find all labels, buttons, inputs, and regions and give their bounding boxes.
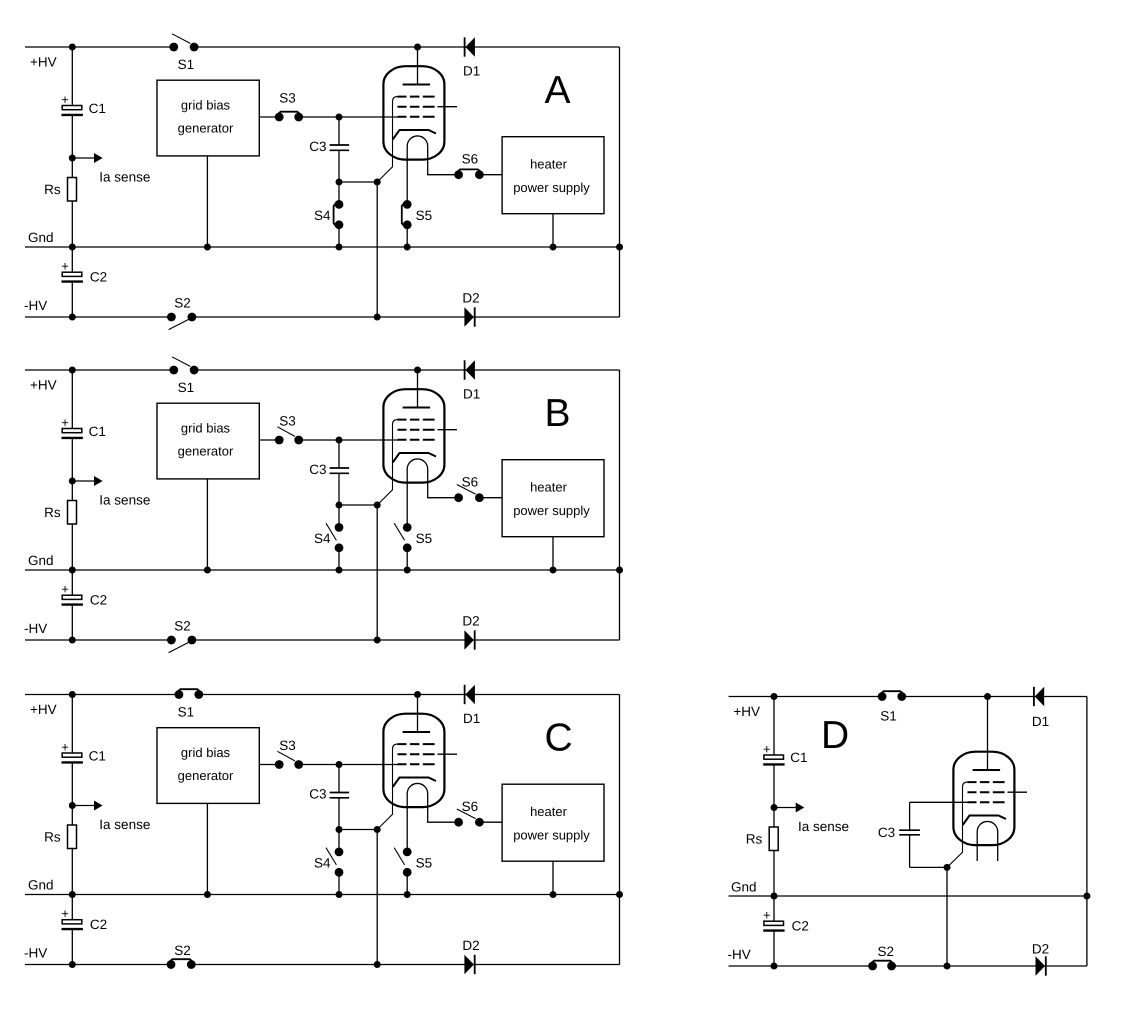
A: wire S4 to Gnd xyxy=(338,225,340,247)
D: switch S1 xyxy=(878,692,887,701)
B: grid bias generator box xyxy=(157,403,259,479)
C: switch S5 xyxy=(403,848,412,857)
B: junction C3/S4 node xyxy=(336,502,343,509)
A: tube cathode xyxy=(393,130,436,140)
C: resistor Rs xyxy=(68,825,77,849)
C: tube screen grid stub xyxy=(438,753,458,755)
svg-text:power supply: power supply xyxy=(513,503,590,518)
D: junction border/Gnd xyxy=(1083,893,1090,900)
A: wire Gnd to C2 xyxy=(71,247,73,272)
B: capacitor C3 xyxy=(330,468,350,473)
D: +HV rail wire left xyxy=(729,696,883,698)
A: Ia sense arrow xyxy=(72,153,102,163)
D: junction +HV/C1 xyxy=(771,693,778,700)
svg-text:grid bias: grid bias xyxy=(181,745,231,760)
C: wire S3 to grid xyxy=(299,764,398,766)
A: +HV rail wire right xyxy=(194,46,619,48)
D: wire Rs to Gnd xyxy=(773,851,775,897)
svg-text:+HV: +HV xyxy=(30,702,57,717)
D: tube screen grid stub xyxy=(1008,791,1028,793)
B: wire S3 to grid xyxy=(299,439,398,441)
A: junction C3/S4 node xyxy=(336,179,343,186)
B: junction heater supply/Gnd xyxy=(550,567,557,574)
C: wire C3 to node xyxy=(338,798,340,830)
C: wire node to S4 xyxy=(338,830,340,852)
A: tube anode plate xyxy=(403,84,431,86)
C: switch S3 xyxy=(275,760,284,769)
svg-text:D2: D2 xyxy=(1032,942,1049,957)
D: diode D1 xyxy=(1032,687,1049,729)
A: diode D2 xyxy=(462,290,479,326)
B: junction S5/Gnd xyxy=(404,567,411,574)
svg-text:C2: C2 xyxy=(792,919,809,934)
C: diode D2 xyxy=(462,938,479,974)
C: junction cathode/-HV xyxy=(374,961,381,968)
B: vacuum tube (pentode) xyxy=(377,370,458,527)
B: tube suppressor-to-cathode lead wire xyxy=(377,420,397,505)
C: junction C2/-HV xyxy=(69,961,76,968)
C: wire +HV to C1 xyxy=(71,695,73,754)
svg-text:-HV: -HV xyxy=(24,946,47,961)
D: tube control grid g1 (dashed) xyxy=(968,801,1005,803)
B: junction anode/+HV xyxy=(414,367,421,374)
D: -HV rail wire right xyxy=(892,965,1087,967)
svg-text:S2: S2 xyxy=(174,943,191,958)
B: wire node to S4 xyxy=(338,505,340,527)
A: wire node to S4 xyxy=(338,182,340,204)
C: vacuum tube (pentode) xyxy=(377,695,458,852)
A: wire C2 to -HV xyxy=(71,282,73,317)
D: capacitor C3 xyxy=(899,830,920,835)
svg-text:heater: heater xyxy=(530,157,568,172)
A: Gnd rail wire xyxy=(25,246,620,248)
B: Gnd rail wire xyxy=(25,569,620,571)
B: wire generator to Gnd xyxy=(206,479,208,570)
D: tube cathode xyxy=(963,816,1006,826)
svg-text:S3: S3 xyxy=(279,738,296,753)
C: tube control grid g1 (dashed) xyxy=(398,763,435,765)
svg-text:S1: S1 xyxy=(178,57,195,72)
A: junction border/Gnd xyxy=(616,244,623,251)
B: junction +HV/C1 xyxy=(69,367,76,374)
D: resistor Rs xyxy=(769,827,778,851)
C: junction C3/S4 node xyxy=(336,826,343,833)
C: capacitor C3 xyxy=(330,793,350,798)
B: wire grid node to C3 xyxy=(338,440,340,468)
svg-text:D: D xyxy=(821,714,849,757)
C: wire C2 to -HV xyxy=(71,929,73,964)
D: tube anode lead wire xyxy=(987,697,989,771)
D: Ia sense arrow xyxy=(774,803,804,813)
svg-text:Rs: Rs xyxy=(44,505,61,520)
svg-text:D2: D2 xyxy=(462,290,479,305)
D: wire C1 to Ia node xyxy=(773,764,775,827)
C: switch S6 xyxy=(454,818,463,827)
svg-text:D1: D1 xyxy=(1032,714,1049,729)
B: wire +HV to C1 xyxy=(71,370,73,429)
C: wire C1 to Ia node xyxy=(71,762,73,825)
svg-text:S5: S5 xyxy=(416,208,433,223)
B: wire Gnd to C2 xyxy=(71,570,73,595)
C: wire generator to S3 xyxy=(259,764,279,766)
A: wire Rs to Gnd xyxy=(71,201,73,247)
C: junction cathode node xyxy=(374,826,381,833)
A: junction grid/C3 xyxy=(336,114,343,121)
C: wire heater supply to Gnd xyxy=(552,861,554,894)
svg-text:-HV: -HV xyxy=(24,621,47,636)
B: switch S1 xyxy=(169,366,178,375)
D: junction cathode/-HV xyxy=(944,963,951,970)
C: tube envelope xyxy=(383,714,444,807)
C: switch S1 xyxy=(175,690,184,699)
svg-text:Ia sense: Ia sense xyxy=(99,170,150,185)
D: tube heater filament xyxy=(977,821,998,861)
B: resistor Rs xyxy=(68,501,77,525)
D: junction cathode node xyxy=(944,864,951,871)
A: grid bias generator box xyxy=(157,80,259,156)
svg-text:D2: D2 xyxy=(462,613,479,628)
svg-text:generator: generator xyxy=(178,768,234,783)
A: +HV rail wire left xyxy=(25,46,174,48)
D: tube envelope xyxy=(953,752,1014,845)
svg-text:C3: C3 xyxy=(309,462,326,477)
C: -HV rail wire left xyxy=(25,964,171,966)
svg-text:S6: S6 xyxy=(462,152,479,167)
svg-text:S4: S4 xyxy=(314,531,331,546)
svg-text:S2: S2 xyxy=(174,296,191,311)
svg-text:D1: D1 xyxy=(463,711,480,726)
A: junction heater supply/Gnd xyxy=(550,244,557,251)
C: tube cathode xyxy=(393,778,436,788)
D: diode D2 xyxy=(1032,942,1049,976)
D: wire Gnd to C2 xyxy=(773,896,775,921)
svg-text:C: C xyxy=(545,716,573,759)
svg-text:C3: C3 xyxy=(309,787,326,802)
C: wire grid node to C3 xyxy=(338,765,340,793)
svg-text:+HV: +HV xyxy=(30,378,57,393)
C: grid bias generator box xyxy=(157,728,259,804)
A: junction cathode node xyxy=(374,179,381,186)
C: junction S5/Gnd xyxy=(404,891,411,898)
B: -HV rail wire right xyxy=(192,639,620,641)
svg-text:+: + xyxy=(61,415,69,430)
A: wire generator to Gnd xyxy=(206,156,208,247)
D: wire C3 to cathode node xyxy=(910,866,947,868)
B: junction generator/Gnd xyxy=(204,567,211,574)
svg-text:C2: C2 xyxy=(90,270,107,285)
D: Gnd rail wire xyxy=(729,895,1087,897)
C: junction Ia sense node xyxy=(69,802,76,809)
B: wire node to cathode node xyxy=(339,504,377,506)
A: wire S5 to Gnd xyxy=(406,225,408,247)
B: wire C2 to -HV xyxy=(71,605,73,640)
D: +HV rail wire right xyxy=(902,696,1087,698)
A: switch S1 xyxy=(169,43,178,52)
B: -HV rail wire left xyxy=(25,639,171,641)
B: wire S4 to Gnd xyxy=(338,548,340,570)
A: switch S6 xyxy=(454,170,463,179)
svg-text:S4: S4 xyxy=(314,856,331,871)
svg-text:S1: S1 xyxy=(178,380,195,395)
svg-text:C1: C1 xyxy=(790,750,807,765)
B: wire S6 to heater supply xyxy=(479,497,502,499)
A: wire +HV to C1 xyxy=(71,47,73,106)
C: +HV rail wire left xyxy=(25,694,179,696)
svg-text:generator: generator xyxy=(178,120,234,135)
B: tube screen grid g2 (dashed) xyxy=(398,429,435,431)
B: wire C1 to Ia node xyxy=(71,438,73,501)
C: +HV rail wire right xyxy=(199,694,620,696)
C: junction generator/Gnd xyxy=(204,891,211,898)
A: junction S5/Gnd xyxy=(404,244,411,251)
B: junction Ia sense node xyxy=(69,478,76,485)
B: heater power supply box xyxy=(502,460,604,537)
svg-text:S1: S1 xyxy=(880,709,897,724)
B: junction Rs/Gnd xyxy=(69,567,76,574)
svg-text:S3: S3 xyxy=(279,414,296,429)
svg-text:+: + xyxy=(61,259,69,274)
B: switch S6 xyxy=(454,493,463,502)
A: junction cathode/-HV xyxy=(374,314,381,321)
C: right border wire xyxy=(619,695,621,965)
svg-text:Rs: Rs xyxy=(44,830,61,845)
A: tube suppressor-to-cathode lead wire xyxy=(377,97,397,182)
svg-text:D2: D2 xyxy=(462,938,479,953)
A: wire heater supply to Gnd xyxy=(552,214,554,247)
C: tube anode plate xyxy=(403,731,431,733)
C: wire Rs to Gnd xyxy=(71,849,73,895)
B: tube control grid g1 (dashed) xyxy=(398,439,435,441)
B: diode D1 xyxy=(463,360,480,401)
C: tube suppressor-to-cathode lead wire xyxy=(377,744,397,829)
B: junction cathode node xyxy=(374,502,381,509)
B: wire heater supply to Gnd xyxy=(552,537,554,570)
A: wire C3 to node xyxy=(338,150,340,182)
C: switch S4 xyxy=(335,848,344,857)
D: junction Rs/Gnd xyxy=(771,893,778,900)
A: vacuum tube (pentode) xyxy=(377,47,458,204)
A: wire C1 to Ia node xyxy=(71,115,73,178)
B: junction S4/Gnd xyxy=(336,567,343,574)
C: heater power supply box xyxy=(502,784,604,861)
C: junction grid/C3 xyxy=(336,761,343,768)
D: junction Ia sense node xyxy=(771,804,778,811)
B: right border wire xyxy=(619,370,621,640)
A: junction C2/-HV xyxy=(69,314,76,321)
A: -HV rail wire left xyxy=(25,316,171,318)
B: junction C2/-HV xyxy=(69,637,76,644)
svg-text:C3: C3 xyxy=(309,139,326,154)
svg-text:C1: C1 xyxy=(89,424,106,439)
C: junction Rs/Gnd xyxy=(69,891,76,898)
svg-text:D1: D1 xyxy=(463,64,480,79)
C: -HV rail wire right xyxy=(191,964,619,966)
B: tube envelope xyxy=(383,389,444,482)
A: tube anode lead wire xyxy=(417,47,419,85)
svg-text:-HV: -HV xyxy=(728,947,751,962)
A: switch S2 xyxy=(167,313,176,322)
D: junction anode/+HV xyxy=(984,693,991,700)
B: tube heater filament xyxy=(407,459,458,527)
D: switch S2 xyxy=(868,962,877,971)
D: wire +HV to C1 xyxy=(773,697,775,756)
B: wire generator to S3 xyxy=(259,439,279,441)
A: junction Rs/Gnd xyxy=(69,244,76,251)
A: tube heater filament xyxy=(407,136,458,204)
svg-text:S5: S5 xyxy=(416,531,433,546)
C: switch S2 xyxy=(167,960,176,969)
D: -HV rail wire left xyxy=(729,965,873,967)
C: Ia sense arrow xyxy=(72,801,102,811)
C: tube anode lead wire xyxy=(417,695,419,733)
A: -HV rail wire right xyxy=(192,316,620,318)
svg-text:Ia sense: Ia sense xyxy=(798,819,849,834)
svg-text:S2: S2 xyxy=(878,944,895,959)
B: junction border/Gnd xyxy=(616,567,623,574)
C: junction heater supply/Gnd xyxy=(550,891,557,898)
svg-text:heater: heater xyxy=(530,804,568,819)
svg-text:C1: C1 xyxy=(89,101,106,116)
A: junction Ia sense node xyxy=(69,155,76,162)
D: wire grid corner down to C3 xyxy=(909,802,911,830)
A: tube suppressor grid g3 (dashed) xyxy=(398,96,435,98)
svg-text:S1: S1 xyxy=(178,705,195,720)
svg-text:Rs: Rs xyxy=(44,182,61,197)
A: resistor Rs xyxy=(68,178,77,202)
B: tube anode lead wire xyxy=(417,370,419,408)
C: wire Gnd to C2 xyxy=(71,895,73,920)
svg-text:Gnd: Gnd xyxy=(28,230,54,245)
A: right border wire xyxy=(619,47,621,317)
svg-text:Ia sense: Ia sense xyxy=(99,817,150,832)
A: capacitor C3 xyxy=(330,145,350,150)
C: wire cathode node to -HV xyxy=(376,830,378,965)
A: wire node to cathode node xyxy=(339,181,377,183)
D: tube anode plate xyxy=(973,769,1001,771)
svg-text:Gnd: Gnd xyxy=(28,553,54,568)
A: tube control grid g1 (dashed) xyxy=(398,116,435,118)
A: switch S4 xyxy=(335,200,344,209)
B: +HV rail wire right xyxy=(194,369,619,371)
B: diode D2 xyxy=(462,613,479,649)
C: tube heater filament xyxy=(407,783,458,851)
D: junction C2/-HV xyxy=(771,963,778,970)
svg-text:C3: C3 xyxy=(878,825,895,840)
B: wire C3 to node xyxy=(338,473,340,505)
A: wire S6 to heater supply xyxy=(479,174,502,176)
C: junction border/Gnd xyxy=(616,891,623,898)
B: tube screen grid stub xyxy=(438,429,458,431)
C: wire S6 to heater supply xyxy=(479,821,502,823)
svg-text:A: A xyxy=(545,69,571,112)
svg-text:S6: S6 xyxy=(462,475,479,490)
C: junction S4/Gnd xyxy=(336,891,343,898)
A: junction S4/Gnd xyxy=(336,244,343,251)
D: vacuum tube (pentode) xyxy=(947,697,1027,868)
svg-text:D1: D1 xyxy=(463,387,480,402)
A: junction generator/Gnd xyxy=(204,244,211,251)
B: switch S5 xyxy=(403,523,412,532)
svg-text:S4: S4 xyxy=(314,208,331,223)
A: wire grid node to C3 xyxy=(338,117,340,145)
C: wire S5 to Gnd xyxy=(406,872,408,894)
svg-text:generator: generator xyxy=(178,443,234,458)
D: wire cathode node to -HV xyxy=(946,867,948,966)
svg-text:S2: S2 xyxy=(174,619,191,634)
B: switch S2 xyxy=(167,636,176,645)
A: tube envelope xyxy=(383,66,444,159)
A: tube screen grid g2 (dashed) xyxy=(398,106,435,108)
B: junction cathode/-HV xyxy=(374,637,381,644)
svg-text:Gnd: Gnd xyxy=(731,879,757,894)
svg-text:+HV: +HV xyxy=(30,55,57,70)
C: wire node to cathode node xyxy=(339,829,377,831)
B: wire S5 to Gnd xyxy=(406,548,408,570)
svg-text:Rs: Rs xyxy=(746,832,763,847)
A: heater power supply box xyxy=(502,137,604,214)
svg-text:grid bias: grid bias xyxy=(181,97,231,112)
A: tube screen grid stub xyxy=(438,106,458,108)
D: tube suppressor grid g3 (dashed) xyxy=(968,781,1005,783)
C: wire S4 to Gnd xyxy=(338,872,340,894)
C: diode D1 xyxy=(463,685,480,726)
svg-text:+HV: +HV xyxy=(733,704,760,719)
C: junction anode/+HV xyxy=(414,691,421,698)
B: tube cathode xyxy=(393,453,436,463)
svg-text:power supply: power supply xyxy=(513,180,590,195)
A: diode D1 xyxy=(463,37,480,78)
svg-text:heater: heater xyxy=(530,480,568,495)
A: switch S5 xyxy=(403,200,412,209)
B: wire Rs to Gnd xyxy=(71,524,73,570)
svg-text:-HV: -HV xyxy=(24,298,47,313)
svg-text:S6: S6 xyxy=(462,799,479,814)
C: tube suppressor grid g3 (dashed) xyxy=(398,743,435,745)
svg-text:C2: C2 xyxy=(90,593,107,608)
svg-text:Ia sense: Ia sense xyxy=(99,493,150,508)
svg-text:C2: C2 xyxy=(90,917,107,932)
B: switch S3 xyxy=(275,436,284,445)
A: junction anode/+HV xyxy=(414,44,421,51)
D: wire C3 to grid xyxy=(910,801,968,803)
svg-text:S5: S5 xyxy=(416,856,433,871)
A: wire S3 to grid xyxy=(299,116,398,118)
B: tube suppressor grid g3 (dashed) xyxy=(398,419,435,421)
A: wire generator to S3 xyxy=(259,116,279,118)
B: switch S4 xyxy=(335,523,344,532)
svg-text:S3: S3 xyxy=(279,91,296,106)
A: junction +HV/C1 xyxy=(69,44,76,51)
svg-text:power supply: power supply xyxy=(513,828,590,843)
C: tube screen grid g2 (dashed) xyxy=(398,753,435,755)
D: tube screen grid g2 (dashed) xyxy=(968,791,1005,793)
svg-text:Gnd: Gnd xyxy=(28,878,54,893)
D: wire C3 down xyxy=(909,835,911,868)
A: wire cathode node to -HV xyxy=(376,182,378,317)
svg-text:grid bias: grid bias xyxy=(181,420,231,435)
C: wire generator to Gnd xyxy=(206,803,208,894)
B: +HV rail wire left xyxy=(25,369,174,371)
B: tube anode plate xyxy=(403,407,431,409)
C: Gnd rail wire xyxy=(25,894,620,896)
B: Ia sense arrow xyxy=(72,476,102,486)
D: tube suppressor-to-cathode lead wire xyxy=(947,782,968,867)
svg-text:C1: C1 xyxy=(89,749,106,764)
C: junction +HV/C1 xyxy=(69,691,76,698)
D: wire C2 to -HV xyxy=(773,931,775,966)
A: switch S3 xyxy=(275,113,284,122)
svg-text:B: B xyxy=(545,392,571,435)
